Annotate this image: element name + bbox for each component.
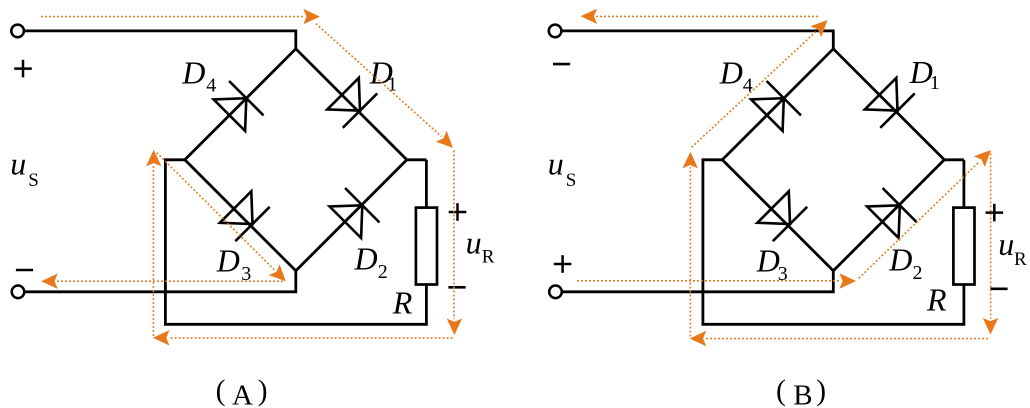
current path A: down through load R — [453, 151, 455, 320]
wire: bottom input to bridge bottom node — [562, 271, 833, 292]
svg-text:1: 1 — [930, 72, 940, 94]
caption (B) — [776, 375, 826, 408]
label label D1 (B) — [909, 54, 940, 94]
input terminal (top) — [549, 25, 562, 38]
current path A: up the left side — [152, 165, 154, 336]
label label D3 (B) — [756, 243, 788, 286]
label label D4 (A) — [181, 54, 216, 96]
svg-text:4: 4 — [743, 74, 753, 96]
wire: right node stub — [944, 158, 964, 161]
diode D1 — [865, 78, 915, 128]
wire: resistor to bottom rail — [963, 285, 966, 326]
current path B: top wire back to input, leftwards — [596, 15, 818, 17]
diode D2 — [867, 188, 917, 238]
svg-text:R: R — [392, 285, 413, 321]
svg-text:(: ( — [216, 375, 226, 407]
svg-text:1: 1 — [387, 73, 397, 95]
current path B: down through load R — [990, 154, 992, 319]
input terminal (bottom) — [12, 286, 25, 299]
current path A: top wire segment, flowing right — [41, 16, 305, 18]
label source voltage uS (B) — [548, 146, 577, 191]
current path B: diagonal through D2 — [859, 162, 980, 279]
diode D3 — [757, 191, 807, 241]
wire: right node down to resistor — [425, 160, 428, 209]
svg-text:3: 3 — [778, 263, 788, 285]
current path A: diagonal through D1 — [316, 24, 442, 137]
svg-text:2: 2 — [913, 262, 923, 284]
polarity - at B resistor bottom — [990, 287, 1007, 290]
resistor R body — [953, 208, 974, 285]
svg-text:D: D — [354, 241, 378, 277]
svg-text:R: R — [1014, 249, 1027, 270]
wire: bottom rail — [702, 323, 964, 326]
svg-text:): ) — [816, 375, 826, 407]
label load label R (A) — [392, 285, 413, 321]
svg-text:D: D — [756, 243, 780, 279]
svg-text:4: 4 — [206, 74, 216, 96]
input terminal (top) — [11, 25, 24, 38]
wire: top input to bridge top node — [562, 31, 833, 49]
bridge diamond wires — [185, 49, 407, 271]
label source voltage uS (A) — [10, 146, 39, 191]
input terminal (bottom) — [549, 286, 562, 299]
current path B: diagonal through D4 — [692, 32, 816, 148]
diode D4 — [214, 81, 264, 131]
svg-text:2: 2 — [378, 261, 388, 283]
wire: left node stub — [165, 158, 184, 161]
current path A: diagonal through D3 — [157, 153, 275, 270]
svg-text:R: R — [926, 282, 947, 318]
polarity + at B resistor top — [986, 204, 1004, 222]
svg-text:D: D — [719, 55, 743, 91]
svg-text:u: u — [10, 146, 26, 182]
label label D2 (A) — [354, 241, 388, 284]
wire: right node stub — [407, 158, 427, 161]
current path A: back to bottom input, leftwards — [57, 280, 283, 282]
label label D3 (A) — [216, 243, 252, 286]
wire: bottom input to bridge bottom node — [25, 271, 296, 292]
polarity + at A top input — [14, 60, 32, 78]
svg-text:u: u — [548, 146, 564, 182]
label output voltage uR (A) — [466, 225, 495, 268]
label label D1 (A) — [369, 55, 398, 96]
svg-text:D: D — [216, 243, 240, 279]
svg-text:R: R — [482, 246, 495, 267]
label label D4 (B) — [719, 55, 753, 97]
wire: top input to bridge top node — [25, 31, 296, 49]
current path A: bottom rail leftwards — [168, 337, 452, 339]
wire: left side down — [164, 158, 167, 324]
svg-text:A: A — [232, 379, 253, 408]
diode D4 — [751, 81, 801, 131]
diode D2 — [330, 188, 380, 238]
svg-text:D: D — [181, 54, 205, 90]
caption (A) — [216, 375, 268, 408]
wire: resistor to bottom rail — [425, 285, 428, 326]
polarity - at A bottom input — [16, 269, 33, 272]
polarity + at A resistor top — [449, 203, 467, 221]
resistor R body — [416, 208, 437, 285]
diode D1 — [327, 78, 377, 128]
bridge diamond wires — [722, 49, 944, 271]
wire: left node stub — [703, 158, 722, 161]
label output voltage uR (B) — [998, 226, 1027, 270]
current path B: from bottom input rightwards — [577, 280, 841, 282]
svg-text:u: u — [466, 225, 482, 261]
label label D2 (B) — [888, 242, 922, 285]
diode D3 — [220, 191, 270, 241]
svg-text:): ) — [258, 375, 268, 407]
svg-text:S: S — [28, 170, 39, 191]
current path B: bottom rail leftwards — [705, 338, 988, 340]
current path B: up the left side — [689, 167, 691, 336]
svg-text:(: ( — [776, 375, 786, 407]
polarity + at B bottom input — [554, 255, 572, 273]
label load label R (B) — [926, 282, 947, 318]
svg-text:u: u — [998, 226, 1014, 262]
svg-text:B: B — [793, 379, 812, 408]
wire: left side down — [702, 158, 705, 324]
polarity - at A resistor bottom — [448, 286, 465, 289]
wire: bottom rail — [164, 323, 426, 326]
polarity - at B top input — [553, 63, 570, 66]
wire: right node down to resistor — [963, 160, 966, 209]
svg-text:S: S — [566, 170, 577, 191]
